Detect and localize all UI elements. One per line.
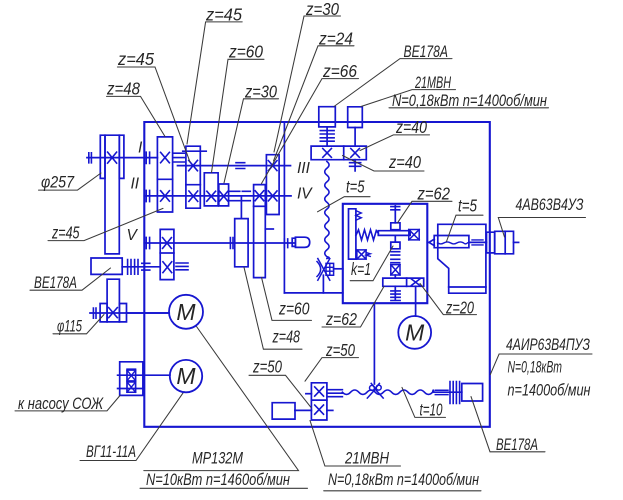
svg-text:ВГ11-11А: ВГ11-11А (86, 442, 136, 461)
svg-text:M: M (176, 363, 196, 389)
svg-text:II: II (131, 176, 140, 193)
svg-text:4АИР63В4ПУЗ: 4АИР63В4ПУЗ (506, 335, 590, 354)
svg-text:z=60: z=60 (278, 299, 310, 319)
svg-text:t=10: t=10 (420, 400, 443, 420)
svg-text:z=40: z=40 (395, 117, 427, 137)
svg-text:z=45: z=45 (51, 223, 79, 243)
svg-text:ВЕ178А: ВЕ178А (34, 273, 77, 292)
svg-text:z=24: z=24 (318, 29, 353, 49)
svg-text:φ257: φ257 (41, 173, 74, 192)
svg-text:z=48: z=48 (106, 79, 140, 99)
svg-text:N=0,18кВт: N=0,18кВт (508, 358, 563, 377)
svg-text:21МВН: 21МВН (344, 449, 389, 468)
svg-text:t=5: t=5 (458, 196, 477, 216)
svg-text:k=1: k=1 (351, 259, 371, 279)
svg-text:N=0,18кВт n=1400об/мин: N=0,18кВт n=1400об/мин (328, 470, 479, 489)
svg-text:I: I (138, 140, 143, 157)
svg-text:к насосу СОЖ: к насосу СОЖ (18, 394, 104, 413)
svg-text:z=48: z=48 (272, 327, 300, 347)
svg-text:V: V (127, 227, 139, 244)
svg-text:z=50: z=50 (252, 357, 282, 377)
svg-text:ВЕ178А: ВЕ178А (404, 42, 449, 61)
svg-text:φ115: φ115 (57, 317, 82, 336)
svg-text:21МВН: 21МВН (414, 73, 451, 92)
svg-text:z=62: z=62 (417, 184, 451, 204)
svg-text:4АВ63В4УЗ: 4АВ63В4УЗ (516, 195, 584, 214)
svg-text:z=60: z=60 (228, 42, 263, 62)
svg-text:IV: IV (297, 186, 313, 203)
svg-text:M: M (176, 299, 196, 325)
svg-text:z=30: z=30 (305, 0, 339, 19)
svg-text:N=0,18кВт n=1400об/мин: N=0,18кВт n=1400об/мин (392, 91, 547, 110)
svg-text:МР132М: МР132М (192, 449, 244, 468)
svg-text:t=5: t=5 (346, 177, 365, 197)
svg-text:N=10кВт n=1460об/мин: N=10кВт n=1460об/мин (146, 470, 290, 489)
svg-text:ВЕ178А: ВЕ178А (496, 435, 538, 454)
svg-text:z=45: z=45 (117, 49, 154, 69)
svg-text:z=66: z=66 (322, 61, 357, 81)
svg-text:z=40: z=40 (388, 152, 421, 172)
svg-text:n=1400об/мин: n=1400об/мин (508, 381, 591, 400)
svg-text:z=45: z=45 (205, 5, 242, 25)
svg-text:M: M (405, 319, 425, 345)
svg-text:III: III (297, 160, 311, 177)
svg-text:z=20: z=20 (445, 298, 474, 318)
svg-text:z=50: z=50 (325, 340, 355, 360)
svg-text:z=30: z=30 (244, 82, 277, 102)
svg-text:z=62: z=62 (325, 309, 357, 329)
